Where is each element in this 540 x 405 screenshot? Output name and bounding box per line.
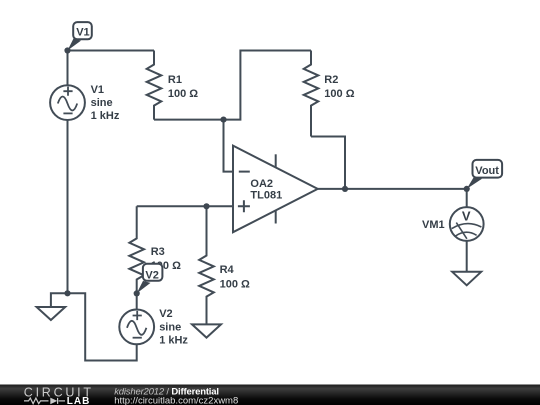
- svg-text:R4: R4: [220, 264, 235, 276]
- flag label Vout: [467, 160, 502, 189]
- footer bar: [0, 385, 540, 405]
- svg-text:V2: V2: [145, 269, 158, 281]
- VM1 meter upper arc: [452, 224, 482, 229]
- wire junction to op-amp inverting input: [224, 120, 234, 172]
- node dot V1 label: [64, 47, 70, 53]
- voltmeter VM1 circle: [450, 207, 484, 241]
- svg-text:OA2: OA2: [250, 178, 273, 190]
- resistor R4: [199, 206, 214, 324]
- V1 minus symbol: [63, 112, 72, 114]
- node dot V2 top: [134, 290, 140, 296]
- op-amp bottom power pin: [275, 211, 277, 224]
- svg-text:V1: V1: [91, 84, 104, 96]
- ground under VM1: [452, 272, 481, 286]
- logo diode arrow: [50, 398, 57, 405]
- V1 plus symbol: [63, 87, 72, 96]
- op-amp top power pin: [275, 154, 277, 167]
- svg-text:TL081: TL081: [250, 189, 282, 201]
- op-amp OA2 triangle: [233, 146, 318, 233]
- logo schematic squiggle: [24, 398, 65, 404]
- node dot Vout: [464, 186, 470, 192]
- wire V1 label node to V1 source top: [67, 51, 69, 86]
- svg-text:100 Ω: 100 Ω: [324, 88, 354, 100]
- flag label V1: [68, 22, 92, 50]
- svg-text:V2: V2: [159, 308, 172, 320]
- node dot ground junction: [64, 290, 70, 296]
- resistor R2: [304, 51, 319, 137]
- svg-text:R1: R1: [168, 74, 182, 86]
- svg-text:Vout: Vout: [475, 165, 499, 177]
- wire V2 node to V2 source top: [136, 293, 138, 309]
- svg-text:LAB: LAB: [67, 396, 91, 405]
- node dot R4 top junction: [203, 203, 209, 209]
- wire bottom loop junction to V2 bottom: [68, 293, 137, 360]
- svg-text:100 Ω: 100 Ω: [220, 278, 250, 290]
- wire noninverting input from R3 top: [137, 205, 233, 207]
- op-amp plus input symbol: [238, 200, 250, 212]
- VM1 meter lower arc: [456, 232, 477, 236]
- svg-text:V1: V1: [76, 27, 89, 39]
- VM1 meter needle: [456, 223, 467, 239]
- V2 sine symbol: [127, 321, 146, 335]
- V2 plus symbol: [133, 311, 142, 320]
- svg-text:VM1: VM1: [422, 219, 445, 231]
- wire ground junction to left ground: [51, 293, 68, 307]
- wire R1 bottom to corner up to R2 top: [154, 51, 311, 120]
- node dot R1 bottom junction: [220, 117, 226, 123]
- ground under R4: [192, 324, 221, 337]
- svg-text:sine: sine: [159, 321, 181, 333]
- V2 minus symbol: [133, 337, 142, 339]
- wire node V1 to R1 top: [68, 50, 155, 52]
- wire Vout node to voltmeter top: [466, 189, 468, 207]
- wire R2 bottom to output junction: [311, 137, 345, 189]
- wire op-amp output to Vout node: [318, 188, 467, 190]
- svg-text:sine: sine: [91, 97, 113, 109]
- V1 sine symbol: [58, 97, 77, 111]
- voltage source V2 circle: [119, 310, 154, 345]
- wire voltmeter bottom to ground: [466, 241, 468, 272]
- flag label V2: [137, 264, 163, 294]
- wire V1 source bottom down to ground junction: [67, 120, 69, 293]
- resistor R3: [129, 206, 144, 293]
- svg-text:1 kHz: 1 kHz: [159, 334, 188, 346]
- svg-text:V: V: [462, 208, 471, 223]
- op-amp minus input symbol: [239, 171, 250, 173]
- svg-text:1 kHz: 1 kHz: [91, 110, 120, 122]
- svg-text:100 Ω: 100 Ω: [168, 88, 198, 100]
- ground under V1 junction: [37, 307, 66, 320]
- node dot R2 output junction: [342, 186, 348, 192]
- voltage source V1 circle: [50, 85, 85, 120]
- svg-text:http://circuitlab.com/cz2xwm8: http://circuitlab.com/cz2xwm8: [114, 396, 238, 405]
- svg-text:R3: R3: [151, 246, 165, 258]
- resistor R1: [147, 51, 162, 120]
- svg-text:R2: R2: [324, 74, 338, 86]
